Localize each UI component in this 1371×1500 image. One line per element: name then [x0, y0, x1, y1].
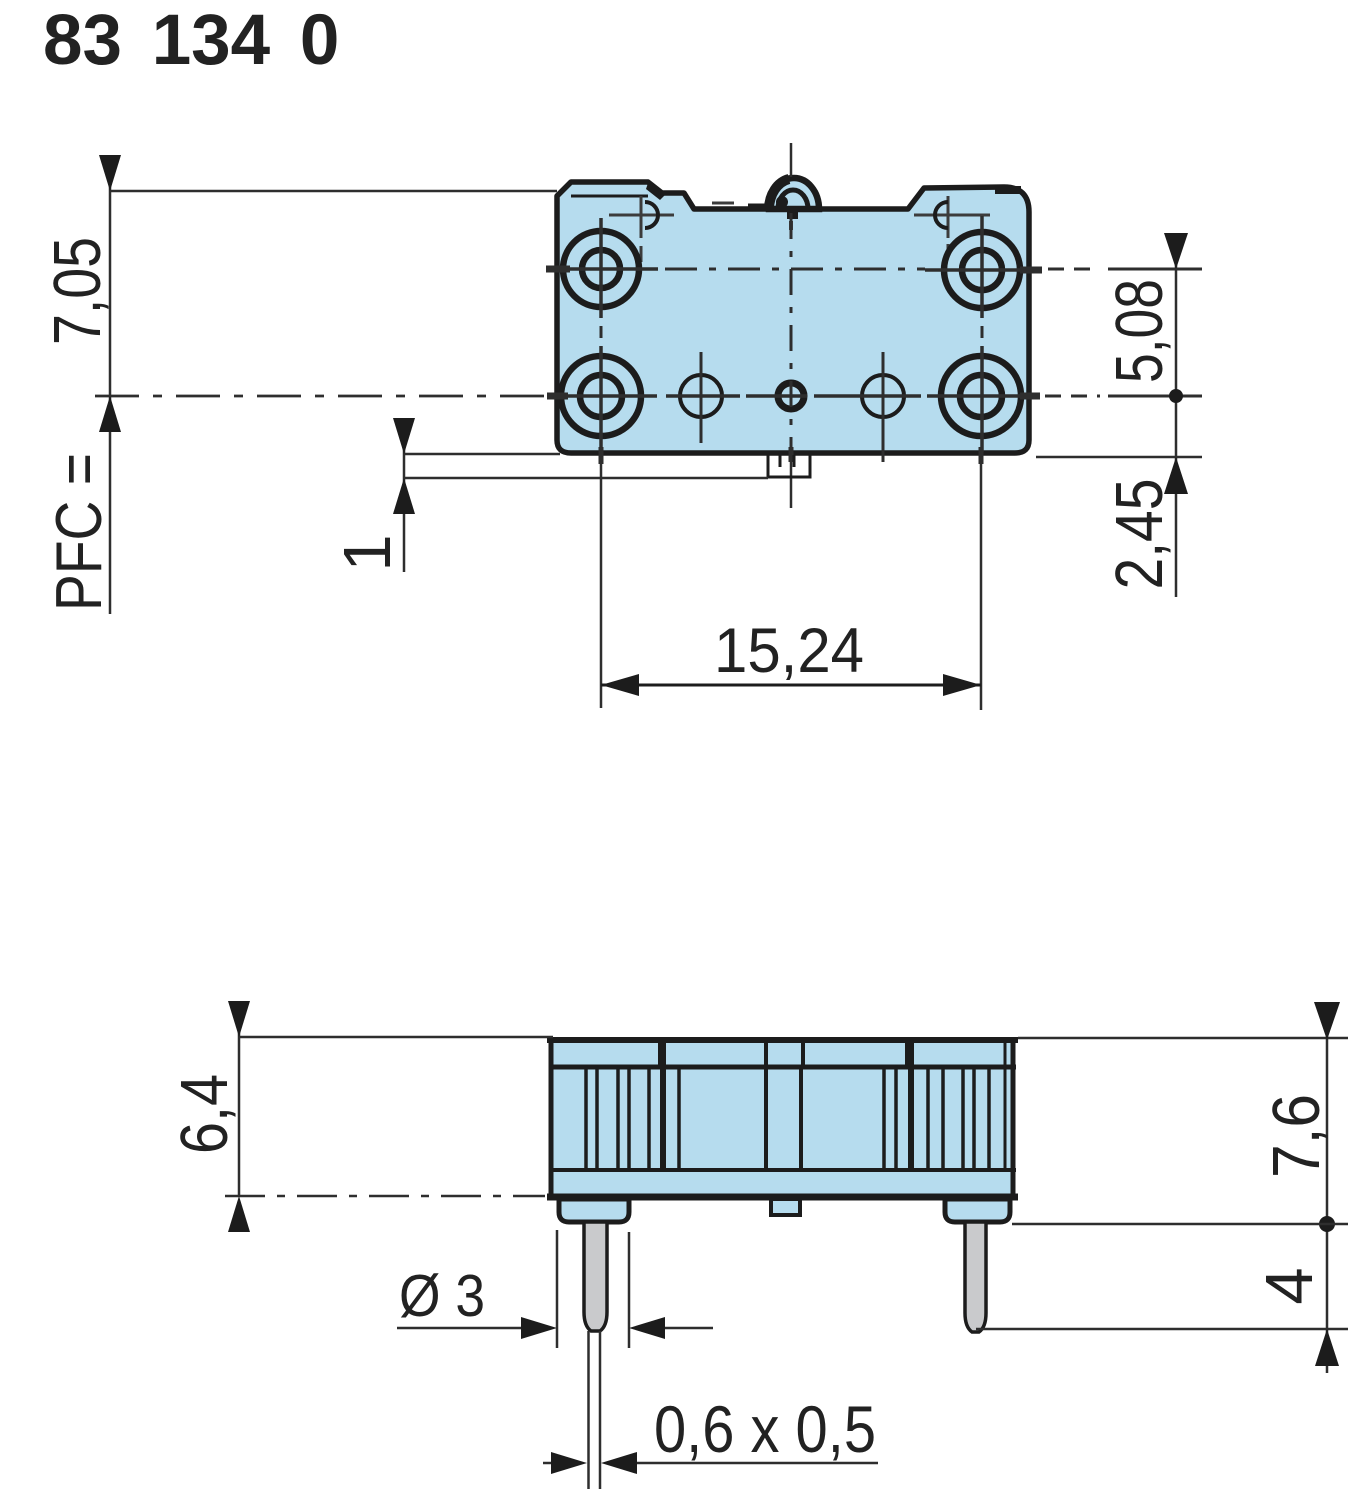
left pin	[584, 1222, 607, 1331]
side body fill	[552, 1038, 1013, 1196]
svg-text:7,6: 7,6	[1259, 1094, 1334, 1178]
hole top-left outer	[563, 231, 639, 307]
button inner arc	[778, 190, 808, 209]
ribs bottom line	[549, 1168, 1016, 1172]
hole bottom-left outer	[561, 356, 641, 436]
dim 7,6 and 4	[976, 1002, 1348, 1373]
dim 5,08	[1108, 233, 1202, 597]
ribs right of channel	[884, 1067, 989, 1170]
cross marker right	[914, 196, 990, 258]
side body left edge	[549, 1037, 554, 1200]
center hole	[778, 383, 804, 409]
side body right edge	[1011, 1037, 1016, 1200]
vertical centerline small hole left	[700, 352, 703, 443]
centerline y269	[546, 269, 1202, 270]
left collar	[559, 1199, 629, 1222]
svg-text:7,05: 7,05	[40, 237, 115, 345]
side body bottom edge	[547, 1194, 1018, 1201]
rim inner line	[571, 195, 648, 198]
middle tab	[771, 1199, 800, 1215]
rim ink patch	[646, 183, 667, 200]
dim 1 extension lower	[404, 477, 768, 480]
svg-text:Ø 3: Ø 3	[399, 1263, 485, 1329]
button dome left heavy ink	[769, 179, 789, 209]
dim 6,4	[228, 1001, 553, 1232]
dim 7,05	[99, 155, 557, 614]
cross marker left	[609, 196, 674, 262]
button dome	[769, 178, 819, 209]
hole top-left inner	[582, 250, 620, 288]
svg-text:4: 4	[1252, 1267, 1327, 1304]
dim 1 extension upper	[404, 453, 560, 456]
top-right ledge ink patch	[995, 186, 1021, 194]
centerline y396	[95, 395, 1202, 398]
svg-text:0,6 x 0,5: 0,6 x 0,5	[654, 1392, 876, 1466]
button stem below edge	[787, 211, 798, 219]
vertical centerline left holes	[599, 218, 603, 708]
dim 15,24	[601, 674, 981, 696]
right pin	[965, 1222, 986, 1332]
svg-text:PFC =: PFC =	[42, 453, 115, 611]
side body top edge	[547, 1037, 1018, 1043]
svg-text:5,08: 5,08	[1102, 279, 1177, 383]
thick divider right	[908, 1040, 914, 1170]
thick divider left	[660, 1040, 666, 1170]
svg-text:2,45: 2,45	[1102, 479, 1177, 590]
button left tick	[748, 204, 770, 209]
hole bottom-right outer	[941, 356, 1021, 436]
hole top-right inner	[962, 250, 1002, 290]
dim diameter 3	[397, 1230, 713, 1348]
centerline side view bottom	[225, 1195, 545, 1198]
hole bottom-right inner	[960, 375, 1002, 417]
left pin thin extension	[587, 1331, 590, 1489]
vertical centerline middle	[790, 143, 793, 508]
svg-text:1: 1	[330, 534, 405, 571]
svg-text:15,24: 15,24	[714, 616, 864, 686]
svg-text:83 134 0: 83 134 0	[43, 1, 339, 80]
plunger tab below body	[768, 455, 810, 477]
middle channel	[766, 1067, 801, 1168]
dim 1 line and arrows	[393, 418, 415, 572]
small hole right	[862, 375, 904, 417]
side body right inner line	[1004, 1040, 1007, 1170]
band dividers	[660, 1038, 907, 1067]
vertical centerline small hole right	[882, 352, 885, 462]
right collar	[945, 1199, 1010, 1222]
band bottom line	[549, 1065, 1016, 1070]
svg-text:6,4: 6,4	[167, 1074, 242, 1154]
small hole left	[680, 375, 722, 417]
ribs left section	[586, 1067, 679, 1170]
vertical centerline right holes	[981, 216, 982, 710]
dim 0,6 x 0,5	[543, 1392, 878, 1474]
hole bottom-left inner	[580, 375, 622, 417]
dim 2,45	[1036, 457, 1202, 494]
top view body	[557, 178, 1029, 453]
hole top-right outer	[944, 232, 1020, 308]
